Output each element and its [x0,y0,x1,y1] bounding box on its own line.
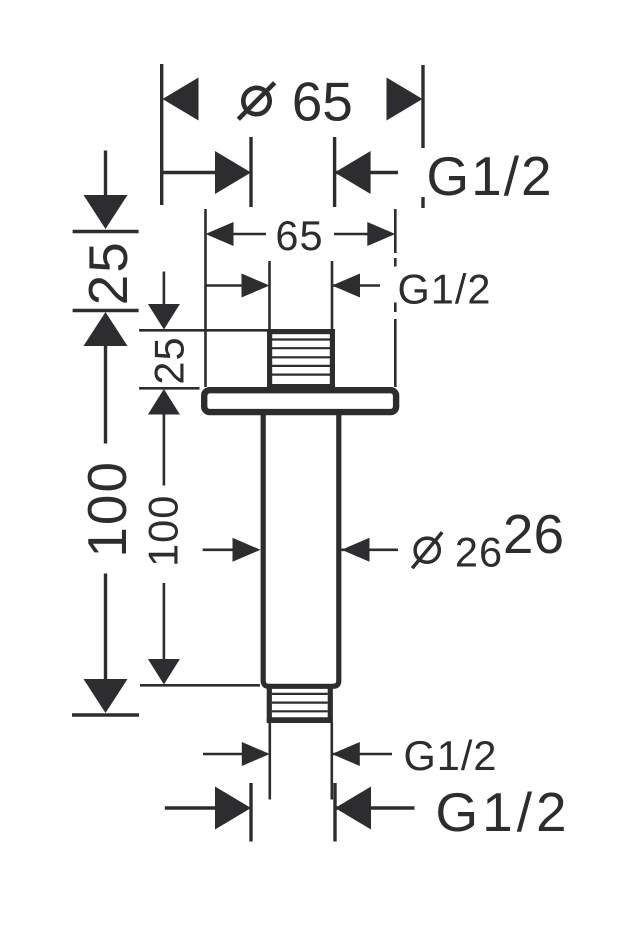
small 100 dimension line lower [163,583,166,661]
small 25 dimension line upper [163,272,166,307]
thread top block top bar [267,329,335,334]
extension line left of large dia65 dimension [160,64,163,205]
tick line bottom of small 100 reaching pipe [140,684,260,687]
svg-text:G1/2: G1/2 [435,781,570,843]
extension line small dia65 right lower [394,319,397,387]
large G1/2 top dimension line left tail [162,171,216,174]
arrowhead pointing right at x=251 [215,151,251,194]
svg-text:25: 25 [146,336,193,384]
extension line large thread right [333,137,336,207]
large 100 dimension line lower [104,574,107,682]
arrowhead pointing left at x=335 bottom [335,787,371,830]
small 65 dimension line left [232,233,266,236]
arrowhead left of large dia65 [163,78,199,121]
arrowhead small pointing right at x=395.3 [367,222,395,246]
svg-text:25: 25 [77,240,139,305]
thread top block right bar [330,329,335,390]
thread top block bottom band [267,384,335,390]
svg-text:G1/2: G1/2 [426,145,553,207]
dia26 dimension line left [203,548,237,551]
large G1/2 top dimension line right tail [335,171,398,174]
thread bottom block bottom band [267,717,333,723]
arrowhead small pointing right at x=269.8 bottom [242,742,270,766]
svg-text:100: 100 [140,495,187,567]
large 100 dimension line upper [104,344,107,444]
tick line top of small 25 reaching thread [139,329,267,332]
extension line large bottom thread left [249,783,252,842]
thread top hatch lines [272,340,330,375]
tick line bottom of large 25 [73,309,139,312]
extension line below bottom thread right [330,723,333,800]
tick line bottom of large 100 [72,713,139,716]
small G1/2 top dimension line left tail [206,284,244,287]
arrowhead small pointing left at x=332 [332,274,360,298]
extension line large bottom thread right [333,783,336,842]
extension line large thread left [249,137,252,207]
arrowhead small down at y=684.5 [148,659,180,685]
svg-text:G1/2: G1/2 [404,732,498,779]
diameter symbol of large dia65 [243,88,269,114]
extension line below bottom thread left [268,723,271,800]
arrowhead right of large dia65 [387,78,423,121]
diameter symbol of small dia26 [415,538,439,562]
arrowhead small pointing left at x=331.8 bottom [332,742,360,766]
extension line right of large dia65 dimension [421,65,424,148]
large 25 dimension line upper [104,151,107,199]
svg-text:26: 26 [455,529,503,576]
tick line bottom of small 25 [139,387,199,390]
arrowhead up large at y=312 [84,312,128,346]
arrowhead pointing right at x=251 bottom [215,787,251,830]
arrowhead small pointing right at pipe left wall [233,538,261,562]
flange [204,390,396,412]
pipe body [263,415,339,686]
large G1/2 bottom dimension line left tail [165,806,216,809]
small 65 dimension line right [334,233,368,236]
small G1/2 bottom dimension line right tail [332,753,392,756]
dash of small right extension line above text [394,258,397,267]
extension line small dia65 left [204,209,207,387]
dashed continuation of right extension line [421,197,424,208]
svg-text:65: 65 [275,212,323,259]
thread top block left bar [267,329,272,390]
svg-text:100: 100 [76,460,138,558]
extension line small thread right [331,261,334,329]
arrowhead small pointing left at pipe right wall [342,538,370,562]
svg-text:65: 65 [292,71,353,133]
arrowhead small pointing left at x=205.5 [206,222,234,246]
dia26 dimension line right [342,548,399,551]
extension line small dia65 right upper [394,209,397,253]
small G1/2 bottom dimension line left tail [203,753,243,756]
extension line small thread left [268,261,271,329]
arrowhead small pointing right at x=269.5 [242,274,270,298]
small G1/2 top dimension line right tail [332,284,380,287]
svg-text:26: 26 [503,503,564,565]
dash of small right extension line below text [394,303,397,313]
small 100 dimension line upper [163,412,166,486]
arrowhead small down at y=329.5 [148,304,180,330]
svg-text:G1/2: G1/2 [398,266,492,313]
thread bottom block right bar [328,687,333,723]
thread bottom hatch lines [272,694,328,711]
arrowhead down large at y=229 [84,195,128,229]
arrowhead small up at y=389 [148,389,180,415]
arrowhead down large at y=713 [84,679,128,713]
large G1/2 bottom dimension line right tail [335,806,415,809]
arrowhead pointing left at x=334.6 [335,151,371,194]
thread bottom block left bar [267,687,272,723]
tick line top of large 25 [73,230,139,233]
